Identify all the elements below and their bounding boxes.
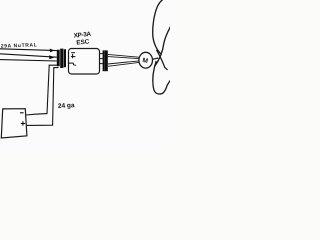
arrowhead on wire 2 (49, 55, 54, 59)
wire: receiver lead 2 (0, 54, 57, 57)
ESC box XP-3A (69, 49, 100, 75)
propeller blade upper-left outline (153, 0, 163, 54)
minus mark inside ESC (hooked) (68, 63, 75, 65)
wire: receiver lead 3 (0, 60, 57, 61)
arrowhead on wire 1 (50, 49, 55, 53)
wire: receiver lead 1 (0, 49, 57, 51)
shaft (152, 58, 158, 59)
wire: motor lead bottom (double stroke) (108, 61, 139, 64)
wire: motor lead top (double stroke) (108, 54, 139, 57)
wire: battery negative lead (24 ga) (26, 65, 58, 115)
svg-text:24 ga: 24 ga (58, 102, 75, 110)
connector: ESC input plug (3 black bars) (57, 50, 60, 66)
propeller blade upper-right outline (155, 26, 171, 66)
svg-text:ESC: ESC (76, 38, 90, 46)
battery box (1, 109, 27, 138)
paper background (0, 0, 170, 150)
wire stubs ESC to motor connector (100, 53, 103, 55)
minus terminal mark (20, 112, 24, 114)
propeller blade lower-right hub outline (157, 50, 168, 70)
plus terminal mark (21, 121, 25, 125)
motor M (139, 52, 153, 68)
propeller blade lower tip and right outline (157, 80, 170, 94)
propeller blade lower-left outline (153, 61, 157, 94)
connector: motor plug (black block with seam) (103, 50, 108, 71)
wire: battery positive lead (24 ga) (27, 68, 59, 126)
plus mark inside ESC (with dash above) (71, 52, 75, 54)
